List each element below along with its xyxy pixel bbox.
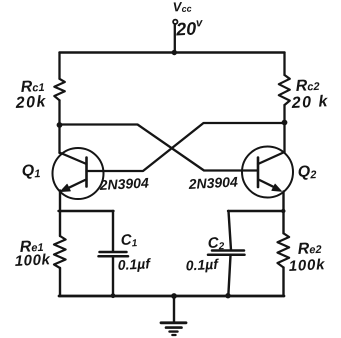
value label 0.1uF (C1) <box>117 255 151 273</box>
resistor Rc1 <box>54 79 65 101</box>
svg-text:20k: 20k <box>14 93 47 112</box>
value label 0.1uF (C2) <box>185 256 219 274</box>
svg-text:20 k: 20 k <box>290 93 329 112</box>
wire C1 to rail <box>112 257 114 296</box>
junction dot C2 rail <box>225 293 230 298</box>
label Rc1 <box>20 78 45 96</box>
wire Vcc stem <box>174 24 176 52</box>
wire C2 branch <box>229 211 232 250</box>
value label 20k <box>14 93 47 112</box>
label Re1 <box>19 238 44 256</box>
wire Rc2 to node <box>283 105 285 123</box>
ground <box>161 296 186 335</box>
transistor Q2 <box>242 147 293 198</box>
wire bottom rail <box>59 295 284 298</box>
node Vcc label <box>172 0 191 14</box>
label 2N3904 (Q2) <box>187 173 238 192</box>
transistor Q1 <box>53 148 104 199</box>
resistor Rc2 <box>279 75 290 105</box>
label Q1 <box>21 162 40 181</box>
wire rail to Rc1 <box>58 53 60 79</box>
label Rc2 <box>295 77 320 95</box>
junction dot right bar <box>281 209 285 213</box>
wire Re1 to rail <box>59 268 61 296</box>
wire Q1 emitter down <box>59 191 61 237</box>
svg-text:2N3904: 2N3904 <box>98 174 149 193</box>
value label 100k <box>14 251 51 270</box>
wire node to Q2 collector <box>283 123 285 153</box>
value label 100k <box>288 256 325 275</box>
Vcc terminal <box>173 20 177 24</box>
label C2 <box>207 234 225 253</box>
wire left bar <box>59 210 114 212</box>
wire right bar <box>228 210 284 212</box>
wire cross-couple Q1 collector to Q2 base <box>60 125 258 171</box>
label Q2 <box>297 163 316 182</box>
svg-text:100k: 100k <box>288 256 325 275</box>
value label 20V <box>175 17 204 39</box>
junction dot Vcc rail <box>172 50 177 55</box>
capacitor C2 <box>208 251 245 255</box>
wire Rc1 to node <box>58 100 60 125</box>
wire cross-couple Q2 collector to Q1 base <box>87 123 285 171</box>
svg-text:0.1µf: 0.1µf <box>185 256 219 274</box>
resistor Re1 <box>54 236 66 268</box>
value label 20k <box>290 93 329 112</box>
wire Re2 to rail <box>282 268 284 297</box>
svg-text:0.1µf: 0.1µf <box>117 255 151 273</box>
wire C1 branch <box>112 211 114 251</box>
wire rail to Rc2 <box>283 53 285 76</box>
capacitor C1 <box>99 252 129 256</box>
svg-text:2N3904: 2N3904 <box>187 173 238 192</box>
wire C2 to rail <box>228 256 230 297</box>
wire Q2 emitter down <box>282 192 284 234</box>
resistor Re2 <box>278 233 290 267</box>
wire top rail <box>60 51 285 53</box>
node Q2 collector junction <box>282 120 288 126</box>
svg-text:100k: 100k <box>14 251 51 270</box>
label Re2 <box>297 240 322 258</box>
label C1 <box>120 231 138 250</box>
junction dot ground rail <box>171 293 177 299</box>
label 2N3904 (Q1) <box>98 174 149 193</box>
junction dot C1 rail <box>111 293 116 298</box>
wire node to Q1 collector <box>58 125 60 153</box>
node Q1 collector junction <box>57 122 63 128</box>
